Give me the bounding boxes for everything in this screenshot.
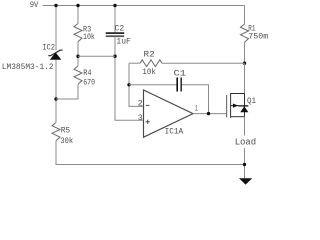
wire R5 bottom to bottom rail (56, 141, 245, 165)
Q1 drain lead (231, 93, 245, 95)
wire C1 right lead to output (182, 85, 209, 114)
capacitor C1 (176, 78, 178, 92)
svg-text:1: 1 (195, 104, 198, 113)
resistor R3 (74, 24, 82, 42)
wire R3 bottom to node A (77, 42, 79, 66)
svg-text:R5: R5 (61, 126, 71, 135)
svg-text:3: 3 (138, 114, 143, 123)
op-amp minus sign (146, 104, 149, 106)
svg-text:2: 2 (138, 100, 143, 109)
node junction ref node (54, 97, 57, 100)
svg-text:IC1A: IC1A (165, 128, 184, 137)
wire R2 left lead (129, 62, 140, 64)
wire R4 bottom to ref node (56, 84, 78, 99)
wire R1 bottom to drain node (244, 42, 246, 63)
wire C1 left lead (129, 84, 177, 86)
wire drain node down to Q1 (244, 63, 246, 93)
wire R2 right lead to drain node (162, 62, 245, 64)
svg-text:10k: 10k (142, 68, 156, 77)
Q1 body diode triangle (240, 106, 248, 112)
Q1 channel bar (230, 93, 232, 118)
svg-text:Q1: Q1 (247, 97, 256, 106)
resistor R4 (74, 66, 82, 84)
capacitor C2 (106, 32, 125, 34)
Q1 body lead (231, 105, 239, 107)
svg-text:10k: 10k (83, 33, 95, 42)
wire Load to bottom rail and ground (244, 148, 246, 179)
svg-text:670: 670 (83, 79, 95, 88)
wire right vertical R1 top lead (244, 6, 246, 25)
wire top 9V rail (43, 5, 245, 7)
ground (239, 178, 252, 184)
node junction rail/R3 (76, 4, 79, 7)
wire C2 bottom to node A and pin3 (115, 38, 144, 121)
Q1 gate bar (226, 95, 228, 118)
node junction output/feedback (207, 112, 210, 115)
node junction rail/IC2 (54, 4, 57, 7)
svg-text:1uF: 1uF (116, 38, 131, 47)
svg-text:R2: R2 (144, 50, 155, 59)
svg-text:C1: C1 (174, 69, 187, 78)
node junction C1 left (127, 83, 130, 86)
svg-text:R4: R4 (83, 69, 91, 78)
wire R3 branch from rail (77, 6, 79, 24)
svg-text:C2: C2 (115, 25, 125, 34)
svg-text:IC2: IC2 (42, 44, 55, 53)
svg-text:LM385M3-1.2: LM385M3-1.2 (2, 63, 54, 72)
resistor R2 (140, 60, 162, 67)
op-amp IC1A (144, 90, 194, 137)
node junction C2/nodeA (113, 55, 116, 58)
wire IC2 branch from rail (55, 6, 57, 51)
wire feedback left vertical (129, 63, 144, 106)
Q1 drain-source vertical (244, 94, 246, 117)
Q1 body arrow (233, 104, 238, 108)
node junction bottom rail (243, 163, 246, 166)
wire C2 branch from rail (114, 6, 116, 33)
svg-text:750m: 750m (248, 33, 268, 42)
node junction R1/R2/drain (243, 62, 246, 65)
Q1 body diode bar (238, 105, 248, 107)
op-amp plus sign (146, 121, 150, 123)
wire Q1 source to Load (244, 117, 246, 136)
resistor R1 (241, 24, 249, 42)
svg-text:Load: Load (235, 138, 257, 148)
node junction R3/R4 (76, 55, 79, 58)
diode IC2 zener (50, 52, 62, 59)
resistor R5 (52, 123, 60, 141)
wire node A horizontal (78, 55, 115, 57)
svg-text:9V: 9V (30, 1, 39, 10)
Q1 source lead (231, 116, 245, 118)
svg-text:30k: 30k (60, 137, 73, 146)
node junction rail/C2 (113, 4, 116, 7)
wire op-amp output to gate (193, 113, 226, 115)
transistor Q1 (227, 93, 245, 118)
wire IC2 anode down to ref node (55, 60, 57, 123)
